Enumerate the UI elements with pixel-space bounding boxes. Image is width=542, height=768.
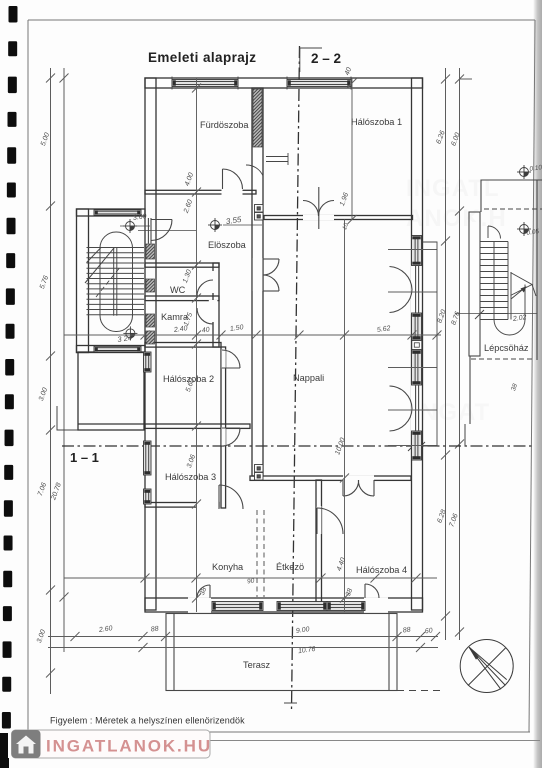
svg-text:INGATLANOK.HU: INGATLANOK.HU <box>46 737 212 756</box>
svg-text:INGATL: INGATL <box>406 175 500 202</box>
svg-text:Hálószoba 2: Hálószoba 2 <box>163 374 214 384</box>
svg-text:90: 90 <box>247 577 256 585</box>
svg-text:.60: .60 <box>422 627 433 635</box>
svg-text:Terasz: Terasz <box>243 660 270 670</box>
svg-text:Konyha: Konyha <box>212 562 244 572</box>
svg-text:Étkezö: Étkezö <box>276 562 304 572</box>
svg-text:Kamra: Kamra <box>161 312 189 322</box>
svg-text:Nappali: Nappali <box>293 373 324 383</box>
svg-text:Hálószoba 4: Hálószoba 4 <box>356 565 407 575</box>
svg-text:88: 88 <box>402 626 411 634</box>
svg-text:40: 40 <box>201 326 210 334</box>
svg-text:Lépcsöház: Lépcsöház <box>484 343 529 353</box>
svg-text:Hálószoba 1: Hálószoba 1 <box>351 117 402 127</box>
svg-text:WC: WC <box>170 285 186 295</box>
svg-text:1 – 1: 1 – 1 <box>70 450 99 465</box>
svg-text:2 – 2: 2 – 2 <box>311 51 341 66</box>
svg-text:NGAT: NGAT <box>420 399 490 426</box>
svg-text:Fürdöszoba: Fürdöszoba <box>200 120 249 130</box>
svg-text:Elöszoba: Elöszoba <box>208 240 247 250</box>
svg-text:Hálószoba 3: Hálószoba 3 <box>165 472 216 482</box>
svg-text:ANOK.H: ANOK.H <box>406 205 507 232</box>
svg-text:Figyelem : Méretek a helyszíne: Figyelem : Méretek a helyszínen ellenöri… <box>50 716 245 726</box>
svg-text:88: 88 <box>150 625 159 633</box>
svg-text:Emeleti alaprajz: Emeleti alaprajz <box>148 50 256 65</box>
